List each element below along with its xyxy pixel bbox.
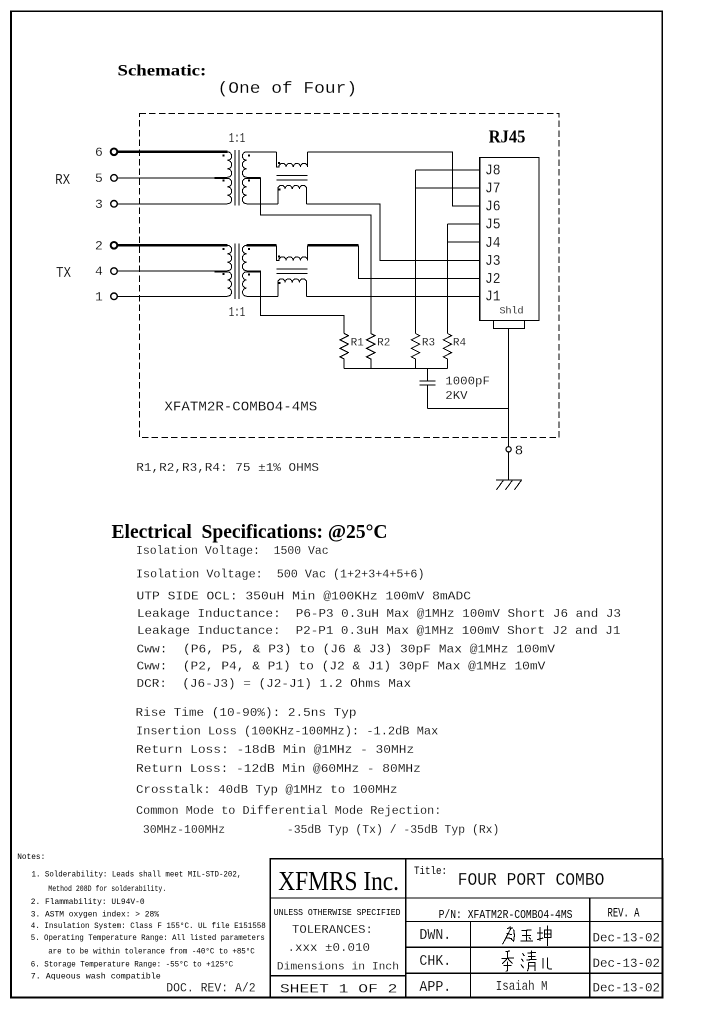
pin 4 label <box>95 264 103 279</box>
wire RJ45 J5/J4 junction down to R4 <box>447 224 479 333</box>
note 2 <box>31 899 145 907</box>
label R4 <box>453 338 467 350</box>
transformer T1 phase dots <box>223 154 250 181</box>
label Title: <box>414 866 447 878</box>
svg-text:4. Insulation System: Class F: 4. Insulation System: Class F 155°C. UL … <box>31 922 266 931</box>
wire pin2 to T2 primary (bold) <box>117 244 227 246</box>
wire capacitor to shield <box>427 408 508 410</box>
svg-text:J4: J4 <box>485 236 501 252</box>
svg-text:Cww: (P6, P5, & P3) to (J6 &: Cww: (P6, P5, & P3) to (J6 & J3) 30pF Ma… <box>137 643 556 657</box>
wire T2 center tap to R1 <box>247 271 345 333</box>
company name XFMRS Inc. <box>278 866 399 896</box>
wire shield tab down to pin 8 <box>508 328 510 446</box>
transformer T2 primary lower winding <box>117 272 231 296</box>
label 8 <box>515 444 523 460</box>
resistor R4 <box>443 334 451 369</box>
choke CH2 top winding <box>276 245 307 260</box>
label: (One of Four) <box>218 80 358 99</box>
svg-text:XFATM2R-COMBO4-4MS: XFATM2R-COMBO4-4MS <box>164 401 317 416</box>
svg-text:CHK.: CHK. <box>419 953 451 970</box>
svg-text:SHEET 1 OF 2: SHEET 1 OF 2 <box>280 981 398 996</box>
label P/N <box>439 908 573 922</box>
date APP Dec-13-02 <box>593 982 661 996</box>
svg-text:DWN.: DWN. <box>419 927 451 944</box>
svg-text:Crosstalk: 40dB Typ @1MHz to 1: Crosstalk: 40dB Typ @1MHz to 100MHz <box>136 783 398 797</box>
svg-text:3. ASTM oxygen index: > 28%: 3. ASTM oxygen index: > 28% <box>31 911 160 919</box>
svg-text:FOUR PORT COMBO: FOUR PORT COMBO <box>458 870 605 891</box>
transformer T1 secondary lower winding <box>242 178 278 204</box>
label SHEET 1 OF 2 <box>280 981 398 996</box>
label R1,R2,R3,R4: 75 +/-1% OHMS <box>136 461 319 475</box>
svg-text:J6: J6 <box>485 200 501 216</box>
svg-text:Insertion Loss (100KHz-100MHz): Insertion Loss (100KHz-100MHz): -1.2dB M… <box>136 725 438 739</box>
svg-text:Dec-13-02: Dec-13-02 <box>593 957 661 971</box>
note 5 cont <box>48 947 255 956</box>
svg-text:R1,R2,R3,R4: 75 ±1% OHMS: R1,R2,R3,R4: 75 ±1% OHMS <box>136 461 319 475</box>
transformer T1 primary upper winding <box>215 152 232 178</box>
svg-text:J7: J7 <box>485 182 501 198</box>
svg-text:2: 2 <box>95 239 103 254</box>
svg-text:Isolation Voltage: 500 Vac (1: Isolation Voltage: 500 Vac (1+2+3+4+5+6) <box>136 568 425 582</box>
svg-text:Isolation Voltage: 1500 Vac: Isolation Voltage: 1500 Vac <box>136 544 329 558</box>
svg-text:.xxx ±0.010: .xxx ±0.010 <box>288 942 371 955</box>
svg-text:1:1: 1:1 <box>229 132 246 147</box>
spec line 5 <box>137 624 620 638</box>
pin label J2 <box>485 272 501 288</box>
wire T2 secondary top to RJ45 J2 (bold then thin) <box>308 245 480 278</box>
choke CH2 bottom winding <box>278 279 307 296</box>
note 1 <box>32 872 242 880</box>
svg-text:TOLERANCES:: TOLERANCES: <box>292 923 373 937</box>
note 4 <box>31 922 266 931</box>
note 6 <box>31 961 234 970</box>
pin 2 label <box>95 239 103 254</box>
svg-text:3: 3 <box>95 197 103 212</box>
connector RJ45 box <box>480 158 539 321</box>
svg-text:1:1: 1:1 <box>229 306 246 321</box>
label RJ45 <box>489 127 526 147</box>
label CHK. <box>419 953 451 970</box>
svg-text:RJ45: RJ45 <box>489 127 526 147</box>
choke CH2 core <box>276 269 307 273</box>
svg-text:Notes:: Notes: <box>17 854 45 862</box>
svg-text:Rise Time (10-90%): 2.5ns Typ: Rise Time (10-90%): 2.5ns Typ <box>136 706 357 720</box>
svg-text:Leakage Inductance: P2-P1 0.3: Leakage Inductance: P2-P1 0.3uH Max @1MH… <box>137 624 620 638</box>
pin label J3 <box>485 254 501 270</box>
svg-text:Common Mode to Differential Mo: Common Mode to Differential Mode Rejecti… <box>136 804 441 818</box>
svg-text:4: 4 <box>95 264 103 279</box>
pin label Shld <box>500 306 524 317</box>
svg-text:APP.: APP. <box>419 979 451 996</box>
svg-text:5. Operating Temperature Range: 5. Operating Temperature Range: All list… <box>31 935 265 943</box>
svg-text:Leakage Inductance: P6-P3 0.3: Leakage Inductance: P6-P3 0.3uH Max @1MH… <box>137 607 621 621</box>
svg-text:DCR: (J6-J3) = (J2-J1) 1.2 Oh: DCR: (J6-J3) = (J2-J1) 1.2 Ohms Max <box>137 677 412 691</box>
svg-text:Dec-13-02: Dec-13-02 <box>593 982 661 996</box>
pin 1 terminal circle <box>111 293 118 300</box>
label 2KV <box>445 389 468 403</box>
pin 5 label <box>95 171 103 186</box>
ground symbol <box>496 480 522 490</box>
label R1 <box>351 338 365 350</box>
svg-text:UTP SIDE OCL: 350uH Min @100KH: UTP SIDE OCL: 350uH Min @100KHz 100mV 8m… <box>137 590 472 604</box>
wire RJ45 J8/J7 junction down to R3 <box>416 170 480 334</box>
note 7 <box>31 973 161 981</box>
wire resistor bottom bus <box>344 368 447 370</box>
transformer T2 secondary lower winding <box>243 272 278 296</box>
resistor R1 <box>340 334 348 369</box>
spec line 8 <box>137 677 412 691</box>
resistor R3 <box>411 334 419 369</box>
title block signature column divider <box>470 922 472 998</box>
pin 6 terminal circle <box>111 149 118 156</box>
svg-text:5: 5 <box>95 171 103 186</box>
wire T2 secondary top lead (bold) <box>247 244 277 246</box>
svg-text:J1: J1 <box>485 290 501 306</box>
choke CH1 phase dots <box>278 162 281 190</box>
spec line 9 <box>136 706 357 720</box>
label RX <box>55 173 70 189</box>
label 1:1 (T1) <box>229 132 246 147</box>
svg-text:TX: TX <box>56 266 71 282</box>
label TOLERANCES: <box>292 923 373 937</box>
svg-text:RX: RX <box>55 173 70 189</box>
svg-text:Cww: (P2, P4, & P1) to (J2 &: Cww: (P2, P4, & P1) to (J2 & J1) 30pF Ma… <box>137 660 546 674</box>
notes heading <box>17 854 45 862</box>
svg-text:(One of Four): (One of Four) <box>218 80 358 99</box>
note 5 <box>31 935 265 943</box>
pin 8 terminal circle <box>506 447 511 452</box>
date CHK Dec-13-02 <box>593 957 661 971</box>
choke CH1 bottom winding <box>278 185 307 203</box>
signature CHK (Chinese handwriting) <box>502 950 552 971</box>
title block horizontal divider row1 <box>270 897 662 899</box>
spec line 1 <box>136 544 329 558</box>
svg-text:Method 208D for solderability.: Method 208D for solderability. <box>48 886 166 894</box>
label XFATM2R-COMBO4-4MS <box>164 401 317 416</box>
spec line 10 <box>136 725 438 739</box>
spec line 7 <box>137 660 546 674</box>
spec line 6 <box>137 643 556 657</box>
choke CH1 core <box>276 176 307 180</box>
svg-text:6: 6 <box>95 145 103 160</box>
label Dimensions in Inch <box>277 961 399 973</box>
svg-text:Electrical Specifications: @2: Electrical Specifications: @25°C <box>112 521 388 543</box>
choke CH1 top winding <box>276 152 307 167</box>
svg-text:8: 8 <box>515 444 523 460</box>
svg-text:DOC. REV: A/2: DOC. REV: A/2 <box>166 982 255 996</box>
pin label J1 <box>485 290 501 306</box>
svg-text:Schematic:: Schematic: <box>118 63 207 80</box>
pin 5 terminal circle <box>111 175 118 182</box>
title block left cell sheet divider <box>270 975 406 977</box>
svg-text:R2: R2 <box>377 338 390 350</box>
transformer T1 primary lower winding <box>117 178 231 204</box>
spec line 13 <box>136 783 398 797</box>
title FOUR PORT COMBO <box>458 870 605 891</box>
svg-text:Return Loss: -12dB Min @60MHz: Return Loss: -12dB Min @60MHz - 80MHz <box>136 762 421 776</box>
connector RJ45 shield tab <box>494 321 525 329</box>
label TX <box>56 266 71 282</box>
svg-text:are to be within tolerance fro: are to be within tolerance from -40°C to… <box>48 947 255 956</box>
spec line 2 <box>136 568 425 582</box>
pin label J6 <box>485 200 501 216</box>
signature DWN (Chinese handwriting) <box>503 925 551 946</box>
svg-text:1000pF: 1000pF <box>445 375 490 389</box>
svg-text:2KV: 2KV <box>445 389 468 403</box>
dashed schematic boundary box <box>139 114 559 438</box>
pin label J4 <box>485 236 501 252</box>
wire T1 secondary bottom to RJ45 J3 <box>307 204 480 261</box>
wire pin6 to T1 primary (bold) <box>117 151 227 153</box>
wire T1 center tap to R2 <box>247 178 371 334</box>
signature APP Isaiah M <box>496 980 548 995</box>
wire T2 secondary bottom to RJ45 J1 <box>307 295 480 297</box>
pin label J7 <box>485 182 501 198</box>
pin 3 label <box>95 197 103 212</box>
pin label J8 <box>485 164 501 180</box>
label 1:1 (T2) <box>229 306 246 321</box>
spec line 12 <box>136 762 421 776</box>
svg-text:Title:: Title: <box>414 866 447 878</box>
svg-text:P/N: XFATM2R-COMBO4-4MS: P/N: XFATM2R-COMBO4-4MS <box>439 908 573 922</box>
svg-text:REV. A: REV. A <box>608 906 640 921</box>
svg-text:2. Flammability: UL94V-0: 2. Flammability: UL94V-0 <box>31 899 145 907</box>
wire pin 8 to ground <box>508 452 510 480</box>
label DOC. REV: A/2 <box>166 982 255 996</box>
svg-text:6. Storage Temperature Range:: 6. Storage Temperature Range: -55°C to +… <box>31 961 234 970</box>
svg-text:UNLESS OTHERWISE SPECIFIED: UNLESS OTHERWISE SPECIFIED <box>274 907 401 918</box>
label R2 <box>377 338 390 350</box>
pin 3 terminal circle <box>111 201 118 208</box>
label UNLESS OTHERWISE SPECIFIED <box>274 907 401 918</box>
title block vertical divider main <box>405 859 407 998</box>
date DWN Dec-13-02 <box>593 932 661 946</box>
capacitor C1 <box>419 369 435 409</box>
svg-text:J2: J2 <box>485 272 501 288</box>
transformer T2 core <box>235 244 239 300</box>
title block DWN row divider <box>406 946 663 948</box>
svg-text:30MHz-100MHz -35dB Typ: 30MHz-100MHz -35dB Typ (Tx) / -35dB Typ … <box>136 823 499 837</box>
svg-text:Shld: Shld <box>500 306 524 317</box>
title block outline <box>270 859 662 998</box>
spec line 4 <box>137 607 621 621</box>
svg-text:7. Aqueous wash compatible: 7. Aqueous wash compatible <box>31 973 161 981</box>
transformer T1 core <box>235 150 239 206</box>
svg-text:1: 1 <box>95 289 103 304</box>
spec line 14 <box>136 804 441 818</box>
title block CHK row divider <box>406 972 663 974</box>
label REV. A <box>608 906 640 921</box>
pin 2 terminal circle <box>111 242 118 249</box>
pin label J5 <box>485 218 501 234</box>
transformer T2 phase dots <box>223 248 250 276</box>
svg-text:1. Solderability: Leads shall: 1. Solderability: Leads shall meet MIL-S… <box>32 872 242 880</box>
wire T1 secondary top to RJ45 J6 <box>308 152 480 206</box>
transformer T2 secondary upper winding <box>242 245 276 270</box>
svg-text:Isaiah M: Isaiah M <box>496 980 548 995</box>
transformer T2 primary upper winding <box>215 245 232 270</box>
svg-text:Return Loss: -18dB Min @1MHz -: Return Loss: -18dB Min @1MHz - 30MHz <box>136 743 414 757</box>
svg-text:J3: J3 <box>485 254 501 270</box>
label APP. <box>419 979 451 996</box>
choke CH2 phase dots <box>278 255 281 283</box>
title: Schematic: <box>118 63 207 80</box>
note 3 <box>31 911 160 919</box>
pin 1 label <box>95 289 103 304</box>
label .xxx tolerance <box>288 942 371 955</box>
resistor R2 <box>367 334 375 369</box>
transformer T1 secondary upper winding <box>242 152 276 178</box>
svg-text:J8: J8 <box>485 164 501 180</box>
heading Electrical Specifications <box>112 521 388 543</box>
spec line 3 <box>137 590 472 604</box>
svg-text:R1: R1 <box>351 338 365 350</box>
note 1 cont <box>48 886 166 894</box>
svg-text:R3: R3 <box>422 338 435 350</box>
label R3 <box>422 338 435 350</box>
label DWN. <box>419 927 451 944</box>
pin 4 terminal circle <box>111 268 118 275</box>
wire pin4 to T2 primary center tap <box>117 270 215 272</box>
title block date column divider <box>589 898 591 998</box>
svg-text:J5: J5 <box>485 218 501 234</box>
pin 6 label <box>95 145 103 160</box>
title block P/N row divider <box>406 921 663 923</box>
wire pin5 to T1 primary center tap <box>117 177 215 179</box>
svg-text:R4: R4 <box>453 338 467 350</box>
spec line 11 <box>136 743 414 757</box>
label 1000pF <box>445 375 490 389</box>
spec line 15 <box>136 823 499 837</box>
svg-text:Dec-13-02: Dec-13-02 <box>593 932 661 946</box>
svg-text:XFMRS Inc.: XFMRS Inc. <box>278 866 399 896</box>
svg-text:Dimensions in Inch: Dimensions in Inch <box>277 961 399 973</box>
